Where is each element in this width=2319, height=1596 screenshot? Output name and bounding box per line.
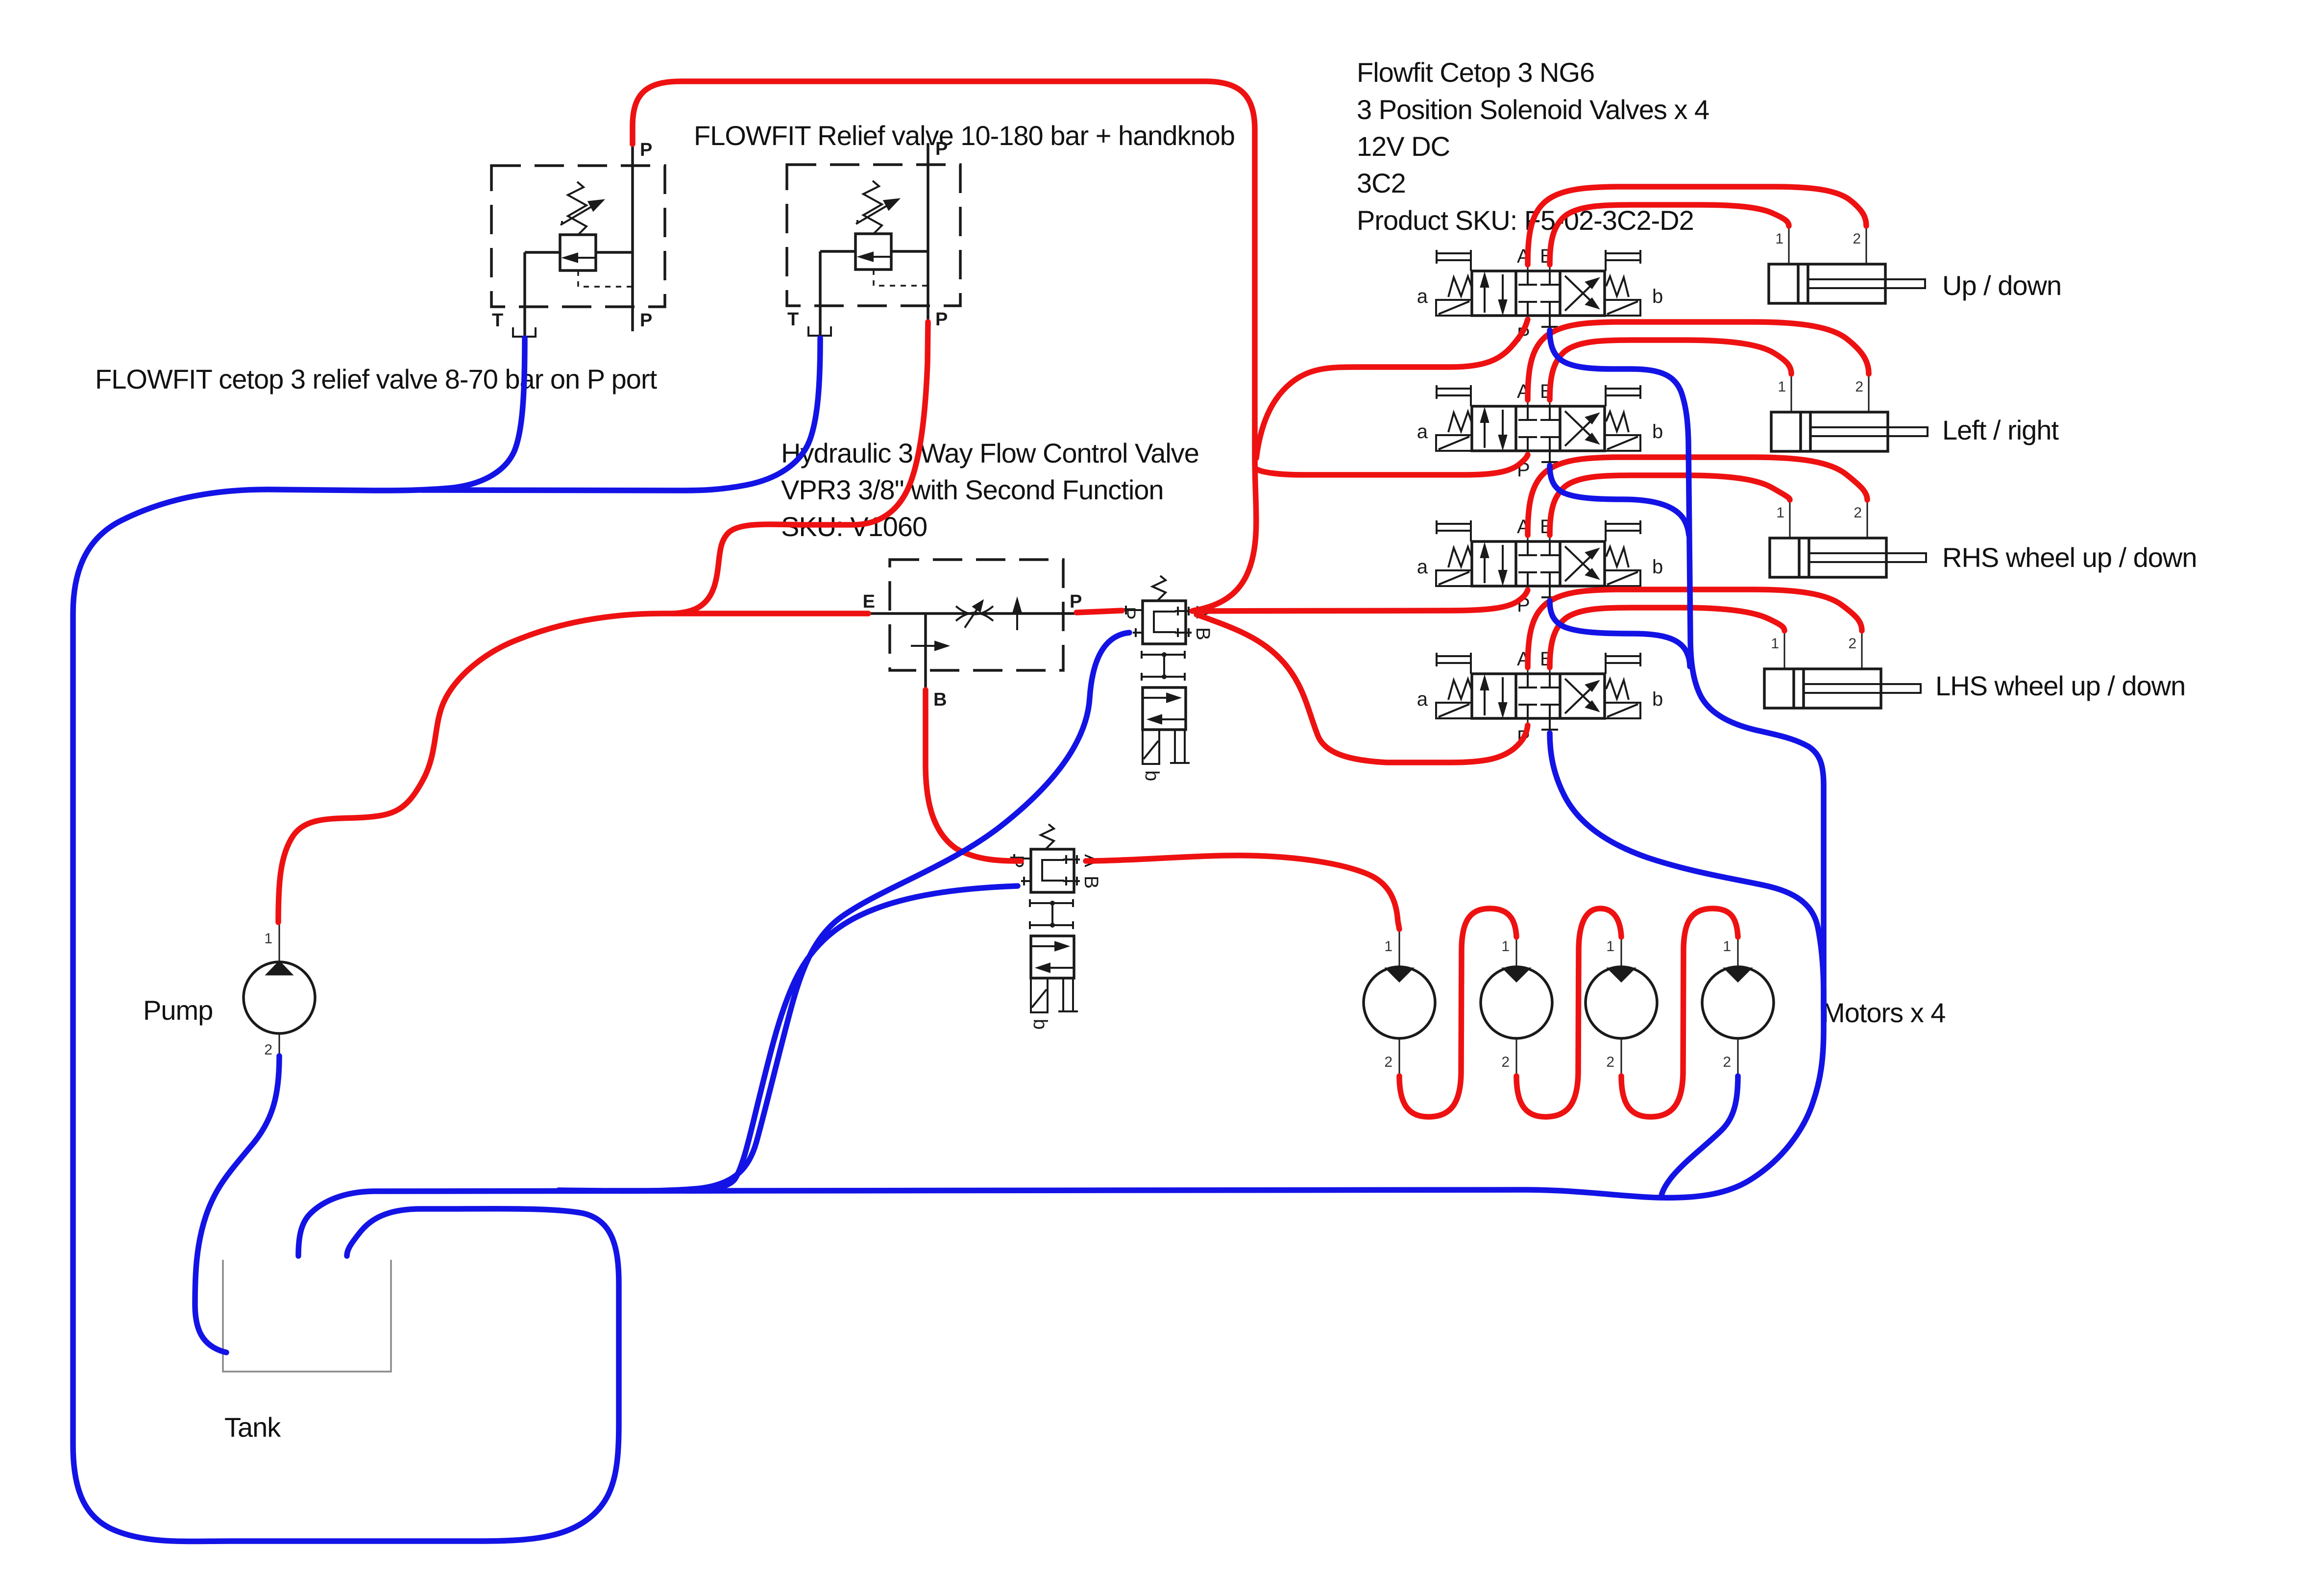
- wire: blue valve SV4 T port sweeping to collector: [1550, 733, 1824, 1009]
- cylinder CYL3 RHS wheel: [1770, 499, 1926, 577]
- wire: blue motor M4 port2 return to tank line: [1661, 1076, 1738, 1198]
- wire: red big top arc from RV1 P to pressure trunk and junction: [633, 81, 1256, 611]
- wire: blue relief RV2 T port joining the tank return: [421, 338, 820, 491]
- wire: red valve SV4 A port arc to cylinder CYL4 port 2: [1528, 589, 1862, 667]
- wire: red valve SV3 B port arc to cylinder CYL3 port 1: [1550, 475, 1790, 535]
- wire: blue diverter DV1 B port down to tank line: [559, 633, 1129, 1191]
- svg-text:Product SKU: F5-02-3C2-D2: Product SKU: F5-02-3C2-D2: [1357, 205, 1694, 236]
- svg-text:3 Position Solenoid Valves x 4: 3 Position Solenoid Valves x 4: [1357, 94, 1709, 125]
- text block: Hydraulic 3 Way Flow Control Valve VPR3 3/8" with Second Function SKU: V1060: [781, 438, 1199, 542]
- solenoid valve SV2 (Left/right): [1417, 381, 1663, 481]
- svg-text:FLOWFIT cetop 3 relief valve 8: FLOWFIT cetop 3 relief valve 8-70 bar on…: [95, 364, 658, 394]
- wire: red valve SV3 A port arc to cylinder CYL3 port 2: [1528, 457, 1867, 535]
- tank symbol: [223, 1260, 391, 1372]
- wire: red valve SV2 A port arc to cylinder CYL2 port 2: [1528, 322, 1869, 400]
- svg-text:B: B: [933, 689, 947, 710]
- wire: red junction to valve SV3 P port: [1192, 590, 1528, 611]
- wire: blue pump port2 suction from tank: [195, 1056, 279, 1352]
- svg-text:Pump: Pump: [143, 995, 213, 1026]
- svg-text:VPR3 3/8" with Second Function: VPR3 3/8" with Second Function: [781, 474, 1164, 505]
- cylinder CYL1 Up/down: [1769, 225, 1925, 303]
- svg-text:LHS wheel up / down: LHS wheel up / down: [1935, 670, 2185, 701]
- wire: blue valve SV2 T port joining collector: [1550, 466, 1689, 535]
- svg-text:2: 2: [264, 1042, 272, 1058]
- solenoid valve SV3 (RHS wheel): [1417, 516, 1663, 616]
- wire: red branch from pump line up to relief valve RV2 P port: [673, 322, 928, 614]
- svg-text:Up / down: Up / down: [1942, 270, 2061, 301]
- relief valve RV2: FLOWFIT relief valve 10-180 bar with handknob: [787, 139, 960, 337]
- svg-text:Flowfit Cetop 3 NG6: Flowfit Cetop 3 NG6: [1357, 57, 1594, 88]
- wire: red valve SV1 B port arc to cylinder CYL1 port 1: [1550, 205, 1789, 265]
- wire: red trunk branch to valve SV1 P port: [1256, 319, 1528, 458]
- solenoid valve SV1 (Up/down): [1417, 246, 1663, 345]
- svg-text:P: P: [1070, 591, 1082, 612]
- svg-text:3C2: 3C2: [1357, 168, 1406, 198]
- flow control valve VPR3 (dashed enclosure): [863, 560, 1082, 710]
- pump symbol: [244, 922, 315, 1058]
- wire: red pump outlet to flow control E port: [278, 614, 868, 922]
- svg-text:FLOWFIT Relief valve 10-180 ba: FLOWFIT Relief valve 10-180 bar + handkn…: [694, 120, 1235, 151]
- svg-text:E: E: [863, 591, 875, 612]
- wire: red flow control B port to diverter DV2 P: [926, 690, 1021, 861]
- motor M4: [1702, 930, 1774, 1076]
- motor M1: [1364, 930, 1435, 1076]
- svg-text:Tank: Tank: [224, 1412, 281, 1443]
- wire: red trunk branch to valve SV2 P port: [1257, 455, 1528, 475]
- wire: blue diverter DV2 B port down to tank line: [608, 886, 1018, 1191]
- wire: red valve SV2 B port arc to cylinder CYL2 port 1: [1550, 340, 1791, 400]
- solenoid valve SV4 (LHS wheel): [1417, 648, 1663, 748]
- wire: red diverter DV2 A port to motor M1 port 1: [1086, 856, 1399, 929]
- diverter valve DV1 (3-way solenoid diverter, vertical): [1118, 576, 1214, 781]
- wire: red valve SV1 A port arc to cylinder CYL1 port 2: [1528, 187, 1866, 265]
- diverter valve DV2 (3-way solenoid diverter, vertical): [1006, 824, 1102, 1030]
- svg-text:12V DC: 12V DC: [1357, 131, 1450, 162]
- wire: red motor M2 port2 to motor M3 port1: [1516, 908, 1621, 1117]
- wire: red motor M1 port2 to motor M2 port1: [1399, 908, 1516, 1117]
- wire: blue main tank return line to solenoid T collector: [298, 1001, 1824, 1256]
- svg-text:Left / right: Left / right: [1942, 415, 2059, 445]
- svg-text:RHS wheel up / down: RHS wheel up / down: [1942, 542, 2197, 573]
- svg-text:Hydraulic 3 Way Flow Control V: Hydraulic 3 Way Flow Control Valve: [781, 438, 1199, 468]
- wire: blue valve SV1 T port down right-side collector: [1550, 330, 1824, 1009]
- hoses: [73, 81, 1869, 1542]
- svg-text:Motors x 4: Motors x 4: [1822, 997, 1945, 1028]
- wire: red junction to valve SV4 P port: [1196, 614, 1528, 762]
- cylinder CYL4 LHS wheel: [1764, 630, 1921, 708]
- wire: red motor M3 port2 to motor M4 port1: [1621, 908, 1738, 1117]
- wire: red valve SV4 B port arc to cylinder CYL4 port 1: [1550, 608, 1784, 667]
- cylinder CYL2 Left/right: [1771, 373, 1928, 451]
- wire: red flow control P port to diverter DV1 P: [1076, 611, 1122, 613]
- motor M3: [1586, 930, 1657, 1076]
- wire: blue valve SV3 T port joining collector: [1550, 601, 1690, 666]
- motor M2: [1481, 930, 1552, 1076]
- text block: Flowfit Cetop 3 NG6 solenoid valves info: [1357, 57, 1709, 236]
- svg-text:1: 1: [264, 931, 272, 947]
- relief valve RV1: FLOWFIT cetop 3 relief valve 8-70 bar: [491, 140, 665, 338]
- wire: blue relief RV1 T port to tank (long left loop): [73, 338, 619, 1542]
